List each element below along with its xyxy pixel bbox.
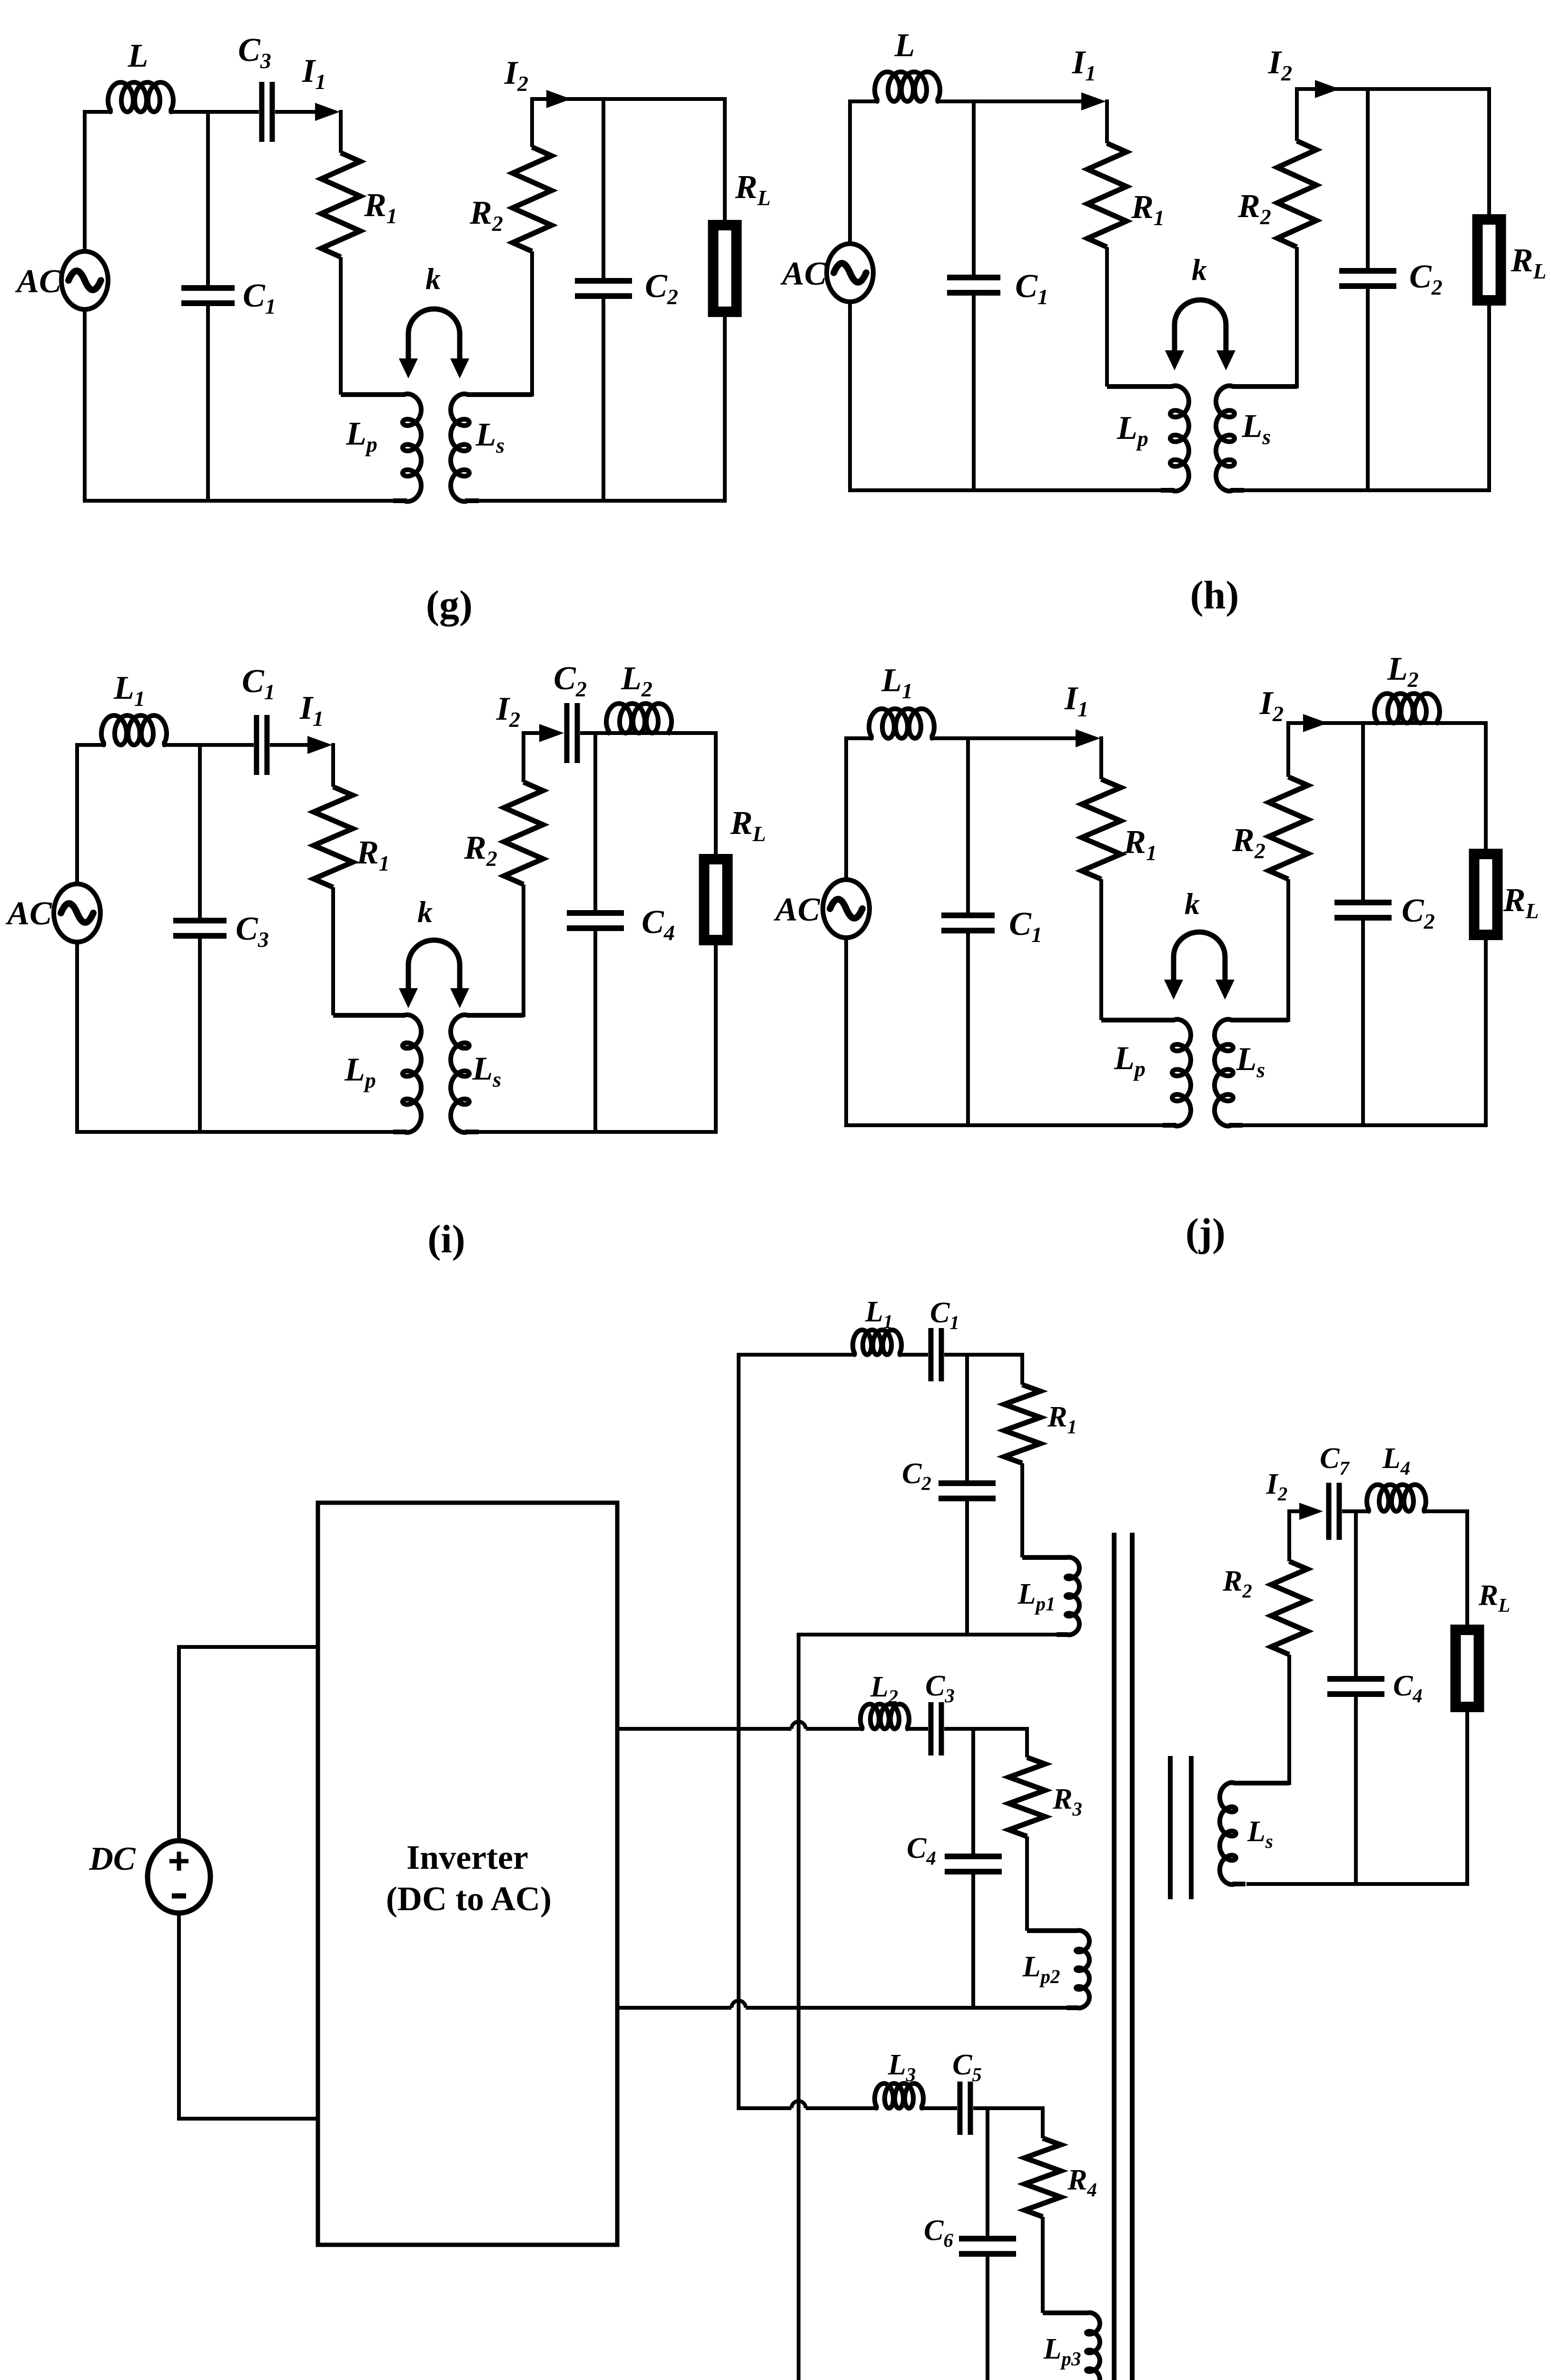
- svg-text:L: L: [894, 27, 915, 64]
- label C2 (i): [553, 660, 587, 701]
- inductor Ls (i): [451, 1015, 524, 1132]
- label I2 (g): [504, 55, 528, 96]
- svg-text:k: k: [1185, 887, 1200, 921]
- label I1 (i): [299, 690, 324, 731]
- label AC (g): [15, 263, 62, 300]
- wire (k) bus A: [737, 1353, 741, 2110]
- wire (h) top secondary: [1297, 87, 1491, 91]
- label L2 (j): [1387, 651, 1419, 692]
- label C7 (k): [1320, 1442, 1350, 1479]
- wire (k) C1 to corner: [944, 1353, 1024, 1357]
- label I2 (k): [1266, 1468, 1288, 1505]
- label AC (i): [5, 895, 52, 932]
- label (h): [1190, 573, 1239, 617]
- load RL (i): [704, 859, 728, 940]
- wire (i) top secondary: [524, 731, 552, 735]
- current arrow I1 (g): [315, 103, 340, 121]
- wire (k) R1 to Lp1: [1020, 1463, 1024, 1557]
- label C4 secondary (k): [1393, 1670, 1423, 1706]
- inductor L1 (k): [853, 1330, 901, 1355]
- wire (g) R2 branch lower: [530, 251, 534, 397]
- label C5 (k): [952, 2049, 982, 2085]
- core short line left (k): [1168, 1756, 1173, 1899]
- wire (g) RL right: [723, 99, 727, 501]
- label R3 (k): [1052, 1783, 1082, 1820]
- wire (g) top secondary: [532, 97, 727, 101]
- current arrow I2 (j): [1303, 714, 1328, 732]
- label R1 (g): [364, 187, 397, 228]
- wire (k) R3 branch upper: [1025, 1727, 1029, 1757]
- wire (k) C7 to L4: [1342, 1509, 1370, 1513]
- wire (k) R2 to top: [1287, 1509, 1291, 1561]
- svg-text:L: L: [128, 38, 148, 74]
- wire (k) C2 branch: [965, 1355, 969, 1635]
- load RL (k): [1456, 1630, 1479, 1707]
- label (g): [426, 583, 473, 627]
- label I1 (g): [302, 53, 326, 94]
- svg-text:AC: AC: [5, 895, 52, 932]
- inverter box (k): [318, 1503, 617, 2245]
- label Lp2 (k): [1022, 1951, 1060, 1987]
- resistor R1 (i): [314, 787, 353, 887]
- capacitor C7 (k): [1329, 1483, 1339, 1540]
- svg-text:(i): (i): [427, 1217, 465, 1261]
- inductor Ls (g): [451, 394, 532, 502]
- capacitor C2 series (i): [567, 703, 577, 763]
- junction wire C1 branch (h): [972, 101, 976, 275]
- svg-text:AC: AC: [15, 263, 62, 300]
- resistor R2 (j): [1269, 777, 1308, 879]
- svg-text:(g): (g): [426, 583, 473, 627]
- AC source (g): [61, 251, 108, 309]
- label Lp3 (k): [1043, 2333, 1081, 2370]
- current arrow I2 (g): [546, 90, 571, 108]
- wire (j) top secondary: [1288, 721, 1488, 725]
- label DC (k): [89, 1841, 136, 1877]
- label RL (g): [735, 169, 771, 210]
- wire (k) R4 branch upper: [1041, 2106, 1045, 2138]
- coupling k (i): [399, 940, 469, 1008]
- wire (g) R2 to top: [530, 97, 534, 147]
- wire (g) C2 branch: [602, 99, 605, 501]
- label R2 (j): [1232, 822, 1265, 863]
- resistor R4 (k): [1025, 2138, 1061, 2217]
- label R2 (k): [1222, 1565, 1252, 1602]
- label Lp1 (k): [1018, 1578, 1056, 1615]
- wire (j) bottom primary: [844, 1123, 1164, 1127]
- wire (h) R2 to top: [1295, 87, 1299, 141]
- label L1 (j): [881, 662, 913, 703]
- resistor R1 (g): [321, 153, 360, 257]
- label k (g): [425, 262, 441, 296]
- label k (i): [417, 895, 433, 929]
- inductor L4 (k): [1367, 1485, 1426, 1511]
- label L3 (k): [888, 2049, 916, 2085]
- svg-text:AC: AC: [780, 256, 827, 292]
- wire (h) bottom primary: [848, 488, 1162, 492]
- label C6 (k): [924, 2214, 953, 2251]
- label R1 (j): [1123, 824, 1157, 865]
- label R2 (g): [469, 195, 503, 236]
- wire (h) RL right: [1487, 89, 1491, 490]
- svg-text:(h): (h): [1190, 573, 1239, 617]
- svg-text:k: k: [417, 895, 433, 929]
- capacitor C5 (k): [960, 2082, 970, 2135]
- label C3 (g): [238, 32, 271, 73]
- inductor Lp3 (k): [1043, 2313, 1100, 2380]
- label C3 (k): [925, 1670, 955, 1706]
- load RL (h): [1478, 219, 1501, 300]
- svg-text:k: k: [1192, 253, 1207, 287]
- current arrow I1 (j): [1076, 729, 1100, 747]
- wire (i) R1 to Lp: [331, 887, 335, 1015]
- wire (k) DC top: [177, 1647, 318, 1843]
- wire (j) RL right: [1484, 723, 1488, 1125]
- wire (k) L2 to C3: [907, 1727, 928, 1731]
- wire (h) R2 branch lower: [1295, 247, 1299, 388]
- label R1 (k): [1047, 1401, 1077, 1438]
- label L2 (k): [870, 1671, 898, 1707]
- core line right (k): [1130, 1533, 1135, 2380]
- inductor Lp2 (k): [1027, 1931, 1089, 2008]
- capacitor C1 (j): [941, 915, 995, 931]
- label C1 (i): [242, 663, 275, 704]
- capacitor C4 (i): [567, 913, 624, 928]
- label C2 (k): [902, 1458, 931, 1494]
- coupling k (j): [1164, 932, 1235, 1000]
- wire (i) top primary: [75, 743, 105, 747]
- wire (g) C1 to bottom: [206, 306, 210, 501]
- capacitor C1 (k): [931, 1328, 941, 1381]
- inductor Lp (h): [1107, 386, 1189, 491]
- AC source (i): [54, 884, 100, 942]
- wire (i) bottom primary: [75, 1130, 394, 1134]
- AC source (j): [823, 880, 869, 938]
- label R1 (h): [1131, 189, 1165, 230]
- wire (g) bottom primary: [83, 499, 394, 503]
- label L4 (k): [1382, 1442, 1410, 1479]
- svg-text:(DC to AC): (DC to AC): [386, 1880, 552, 1918]
- wire (k) secondary bottom: [1246, 1882, 1469, 1886]
- wire (i) RL right: [714, 733, 718, 1132]
- wire (k) L4 to corner: [1423, 1509, 1469, 1513]
- wire (g) C3 to arrow: [275, 110, 316, 114]
- svg-text:DC: DC: [89, 1841, 136, 1877]
- hop (k) branch3 over bus B: [791, 2101, 806, 2108]
- wire (j) R1 to Lp: [1099, 879, 1103, 1020]
- label L2 (i): [621, 660, 652, 701]
- label Inverter (k): [406, 1838, 528, 1876]
- label R4 (k): [1067, 2164, 1097, 2201]
- label I2 (h): [1268, 44, 1292, 85]
- label Ls (i): [472, 1051, 502, 1091]
- junction wire C4 branch (i): [593, 733, 597, 910]
- inductor Lp (i): [333, 1015, 421, 1132]
- wire (k) RL right: [1465, 1511, 1469, 1884]
- current arrow I2 (k): [1299, 1503, 1323, 1520]
- svg-text:Inverter: Inverter: [406, 1838, 528, 1876]
- label DC to AC (k): [386, 1880, 552, 1918]
- capacitor C4 (k): [945, 1856, 1002, 1872]
- wire (k) C6 branch: [986, 2108, 989, 2380]
- label C4 (k): [907, 1832, 936, 1869]
- inductor L2 (k): [860, 1704, 909, 1729]
- label (j): [1185, 1210, 1225, 1255]
- capacitor C2 (h): [1339, 271, 1396, 286]
- label R2 (h): [1237, 188, 1271, 229]
- label (i): [427, 1217, 465, 1261]
- label C1 (j): [1009, 906, 1042, 947]
- label C3 (i): [236, 911, 269, 952]
- wire (j) C2 branch: [1361, 723, 1365, 1125]
- wire (g) bottom secondary: [478, 499, 727, 503]
- label R1 (i): [356, 834, 390, 875]
- capacitor C2 (k): [939, 1483, 996, 1498]
- label L (h): [894, 27, 915, 64]
- label C2 (h): [1409, 258, 1442, 299]
- junction wire C3 branch (i): [198, 745, 202, 918]
- wire (k) C5 to corner: [973, 2106, 1045, 2110]
- wire (i) C4 to bottom: [593, 931, 597, 1132]
- wire (j) left vertical: [844, 738, 848, 1125]
- capacitor C3 (k): [931, 1702, 941, 1755]
- inductor Ls (h): [1216, 386, 1297, 491]
- label C1 (h): [1015, 268, 1048, 309]
- label Ls (g): [475, 416, 505, 457]
- resistor R2 (i): [504, 782, 543, 884]
- resistor R1 (h): [1087, 143, 1126, 247]
- label AC (j): [773, 892, 820, 928]
- label I1 (h): [1072, 44, 1096, 85]
- inductor Lp1 (k): [1022, 1557, 1079, 1635]
- load RL (j): [1474, 854, 1498, 935]
- label C1 (g): [243, 278, 276, 318]
- label Ls (h): [1242, 408, 1271, 449]
- wire (i) R2 to top: [522, 731, 525, 782]
- AC source (h): [827, 244, 873, 302]
- wire (k) C4 branch: [971, 1729, 975, 2008]
- wire (j) R1 branch upper: [1099, 736, 1103, 779]
- capacitor C1 series (i): [257, 715, 267, 775]
- wire (k) DC bottom: [177, 1911, 318, 2119]
- label C4 (i): [642, 904, 675, 945]
- label C2 (g): [645, 268, 678, 309]
- label C1 (k): [930, 1297, 959, 1333]
- wire (i) bottom secondary: [478, 1130, 718, 1134]
- junction wire C1 branch (j): [966, 738, 970, 912]
- wire (k) inverter top output: [617, 1727, 863, 1731]
- wire (h) C2 branch: [1366, 89, 1370, 490]
- label Lp (i): [344, 1051, 376, 1092]
- wire (k) secondary top: [1289, 1509, 1303, 1513]
- inductor L2 (j): [1374, 694, 1440, 723]
- load RL (g): [713, 225, 737, 312]
- capacitor C3 (i): [173, 921, 227, 936]
- svg-text:AC: AC: [773, 892, 820, 928]
- inductor L (h): [875, 72, 940, 101]
- label Lp (h): [1116, 410, 1148, 451]
- label RL (i): [730, 805, 766, 846]
- label Ls (k): [1247, 1815, 1273, 1852]
- svg-text:k: k: [425, 262, 441, 296]
- wire (j) bottom secondary: [1242, 1123, 1488, 1127]
- inductor Lp (g): [341, 394, 421, 502]
- wire (g) top primary: [83, 110, 111, 114]
- coupling k (g): [399, 309, 469, 378]
- resistor R2 (h): [1277, 141, 1316, 247]
- resistor R2 (g): [513, 147, 552, 251]
- junction wire C1 branch (g): [206, 112, 210, 285]
- wire (k) C4s branch: [1354, 1511, 1358, 1884]
- label k (j): [1185, 887, 1200, 921]
- label L1 (k): [865, 1296, 893, 1332]
- wire (j) R2 to top: [1286, 721, 1290, 777]
- label C2 (j): [1402, 892, 1435, 933]
- current arrow I1 (h): [1081, 92, 1106, 110]
- capacitor C1 (g): [181, 288, 235, 303]
- wire (h) C1 to bottom: [972, 296, 976, 490]
- wire (k) Ls to R2: [1287, 1655, 1291, 1785]
- resistor R2 (k): [1271, 1561, 1307, 1655]
- wire (j) C1 to bottom: [966, 933, 970, 1125]
- capacitor C4 secondary (k): [1327, 1679, 1384, 1694]
- label Lp (j): [1114, 1040, 1146, 1081]
- inductor L3 (k): [875, 2083, 923, 2108]
- capacitor C6 (k): [959, 2239, 1016, 2254]
- DC source (k): [148, 1841, 210, 1913]
- wire (k) branch3 top: [737, 2106, 878, 2110]
- wire (k) bus B: [797, 1633, 800, 2380]
- inductor L1 (i): [101, 715, 167, 745]
- wire (k) R3 to Lp2: [1025, 1836, 1029, 1931]
- capacitor C2 (j): [1334, 902, 1392, 918]
- label L1 (i): [113, 670, 145, 711]
- wire (k) R4 to Lp3: [1041, 2217, 1045, 2313]
- label k (h): [1192, 253, 1207, 287]
- wire (j) R2 branch lower: [1286, 879, 1290, 1022]
- label Ls (j): [1236, 1041, 1265, 1082]
- inductor L (g): [108, 82, 173, 112]
- wire (h) L to arrow: [936, 99, 1083, 103]
- inductor Ls (j): [1215, 1019, 1288, 1126]
- core short line right (k): [1189, 1756, 1194, 1899]
- wire (i) C3 to bottom: [198, 939, 202, 1132]
- wire (k) branch1 bottom: [799, 1633, 1061, 1636]
- wire (i) C2 to corner: [580, 731, 718, 735]
- label RL (h): [1511, 242, 1547, 283]
- wire (k) inverter bottom output: [617, 2006, 1071, 2010]
- inductor L1 (j): [869, 709, 934, 738]
- wire (h) R1 branch upper: [1105, 99, 1109, 143]
- wire (i) L1 to C1: [163, 743, 254, 747]
- inductor L2 (i): [606, 704, 672, 733]
- label L (g): [128, 38, 148, 74]
- capacitor C3 (g): [262, 82, 272, 142]
- wire (j) L1 to arrow: [930, 736, 1077, 740]
- svg-text:(j): (j): [1185, 1210, 1225, 1255]
- wire (h) R1 to Lp: [1105, 247, 1109, 387]
- wire (i) C1 to arrow: [270, 743, 309, 747]
- coupling k (h): [1165, 300, 1235, 370]
- label RL (j): [1503, 882, 1539, 923]
- wire (j) top primary: [844, 736, 872, 740]
- label I2 (j): [1259, 685, 1284, 726]
- wire (k) L3 to C5: [921, 2106, 957, 2110]
- current arrow I1 (i): [307, 736, 332, 754]
- wire (g) R1 to Lp: [339, 257, 343, 395]
- wire (h) left vertical: [848, 101, 852, 490]
- resistor R3 (k): [1009, 1757, 1045, 1836]
- resistor R1 (j): [1082, 779, 1121, 879]
- wire (h) bottom secondary: [1243, 488, 1491, 492]
- wire (h) top primary: [848, 99, 878, 103]
- label R2 (i): [464, 830, 497, 871]
- wire (i) R1 branch upper: [331, 743, 335, 787]
- inductor Ls (k): [1220, 1783, 1289, 1884]
- core line left (k): [1112, 1533, 1116, 2380]
- inductor Lp (j): [1101, 1019, 1191, 1126]
- resistor R1 (k): [1004, 1385, 1040, 1463]
- hop (k) output over bus B: [791, 1722, 806, 1729]
- capacitor C1 (h): [947, 278, 1000, 293]
- current arrow I2 (h): [1315, 80, 1340, 98]
- current arrow I2 (i): [539, 724, 564, 742]
- label I2 (i): [496, 691, 520, 732]
- label AC (h): [780, 256, 827, 292]
- wire (k) L1 to C1: [899, 1353, 928, 1357]
- capacitor C2 (g): [575, 281, 632, 296]
- label Lp (g): [346, 416, 377, 456]
- label RL (k): [1478, 1579, 1510, 1616]
- wire (k) branch1 top: [737, 1353, 856, 1357]
- wire (k) C3 to corner: [944, 1727, 1029, 1731]
- wire (i) R2 branch lower: [522, 884, 525, 1017]
- label I1 (j): [1064, 680, 1088, 721]
- wire (i) left vertical: [75, 745, 79, 1132]
- wire (k) R1 branch upper: [1020, 1353, 1024, 1385]
- wire (g) L to C3: [169, 110, 259, 114]
- hop (k) bottom output over bus A: [731, 2001, 746, 2008]
- wire (g) R1 branch upper: [339, 110, 343, 153]
- wire (g) left vertical: [83, 112, 87, 501]
